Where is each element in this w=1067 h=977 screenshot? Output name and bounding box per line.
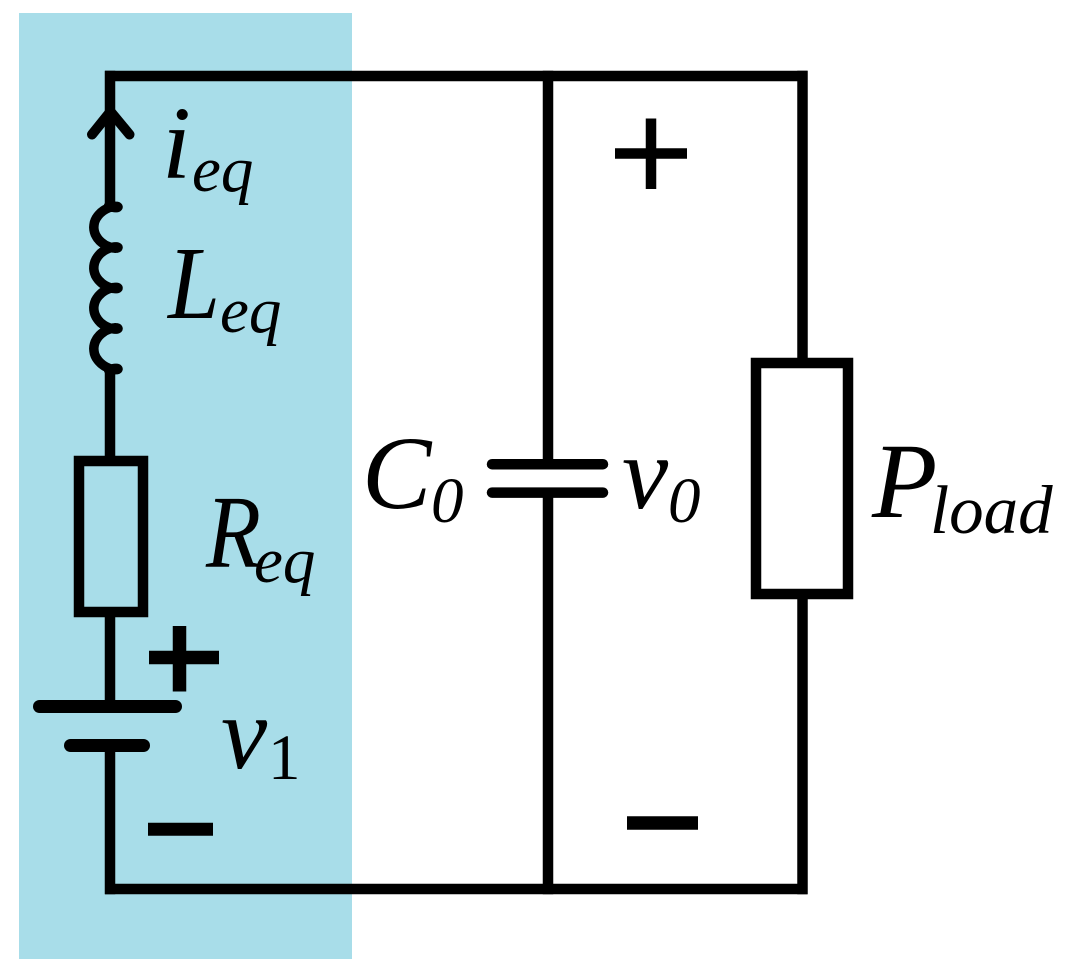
wire middle upper (543, 71, 554, 464)
minus sign load (627, 816, 698, 830)
wire bottom (105, 884, 808, 895)
resistor Req (79, 461, 143, 612)
wire right upper (797, 71, 808, 363)
wire left top (source branch) (105, 71, 116, 206)
svg-text:eq: eq (192, 134, 253, 206)
svg-text:C: C (362, 416, 433, 531)
resistor Pload (756, 363, 848, 594)
capacitor C0 bottom plate (492, 487, 603, 498)
plus sign battery (149, 626, 219, 692)
svg-text:P: P (871, 423, 937, 541)
svg-text:1: 1 (268, 722, 301, 794)
battery v1 long plate (40, 700, 176, 713)
minus sign battery (148, 823, 213, 836)
svg-text:eq: eq (220, 275, 281, 347)
svg-text:R: R (205, 475, 261, 590)
wire resistor to battery (105, 612, 116, 706)
arrow head i_eq (92, 112, 130, 135)
svg-text:v: v (622, 416, 669, 531)
wire right lower (797, 594, 808, 894)
wire battery to bottom (105, 746, 116, 895)
svg-text:load: load (930, 472, 1053, 548)
wire coil to resistor (105, 366, 116, 461)
inductor Leq coil (94, 206, 118, 370)
wire middle lower (543, 493, 554, 895)
battery v1 short plate (71, 739, 144, 752)
wire top (105, 71, 808, 82)
svg-text:0: 0 (431, 465, 464, 537)
highlight region (blue) (19, 13, 352, 959)
plus sign load (615, 119, 687, 190)
svg-text:i: i (162, 86, 191, 201)
svg-text:L: L (166, 226, 220, 341)
svg-text:0: 0 (668, 465, 701, 537)
capacitor C0 top plate (492, 459, 603, 470)
svg-text:v: v (221, 676, 268, 791)
svg-text:eq: eq (254, 525, 315, 597)
